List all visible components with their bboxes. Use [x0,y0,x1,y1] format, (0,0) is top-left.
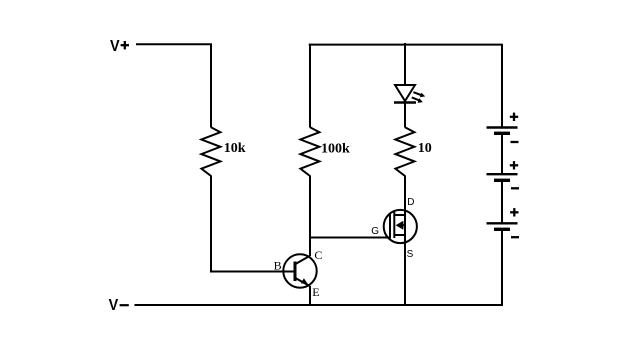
battery BT1 cell 2 [487,161,520,188]
wire gate tap to M1 [310,237,390,239]
MOSFET M1 [384,210,417,243]
transistor Q1 [283,254,316,287]
wire battery bottom to bottom rail [501,229,503,306]
wire base lead to Q1 [210,271,295,273]
svg-text:S: S [407,249,414,260]
wire LED branch down from top rail [404,43,406,85]
svg-text:B: B [274,259,282,273]
svg-text:10: 10 [418,141,432,156]
svg-text:E: E [312,285,319,299]
wire V- bottom rail [135,304,504,306]
wire R2 bottom to Q1 collector [309,176,311,257]
resistor R1 10k [201,127,220,176]
wire between cell2 and cell3 [501,180,503,223]
svg-text:V: V [110,38,120,55]
wire V+ stub to left branch [136,43,212,45]
svg-text:100k: 100k [321,142,350,157]
wire right branch from top rail down to battery [501,44,503,128]
wire Q1 emitter down to bottom rail [309,286,311,305]
wire middle branch down from top rail to resistor R2 [309,44,311,128]
resistor R2 100k [300,127,319,176]
svg-text:G: G [371,226,379,237]
svg-text:V: V [109,297,119,314]
wire between cell1 and cell2 [501,133,503,174]
wire top rail right segment [309,44,502,46]
svg-text:C: C [314,248,322,262]
wire R1 bottom to BJT base corner [210,176,212,272]
svg-text:10k: 10k [224,141,246,156]
wire LED cathode to resistor R3 [404,103,406,128]
LED D1 [394,85,425,103]
battery BT1 cell 1 [487,113,519,142]
svg-text:D: D [407,197,414,208]
battery BT1 cell 3 [487,208,520,237]
wire left branch down from top rail to resistor R1 [210,44,212,128]
node V- label [109,297,129,314]
node V+ label [110,38,129,55]
wire R3 bottom through M1 to bottom rail [404,176,406,306]
resistor R3 10 [395,127,414,176]
